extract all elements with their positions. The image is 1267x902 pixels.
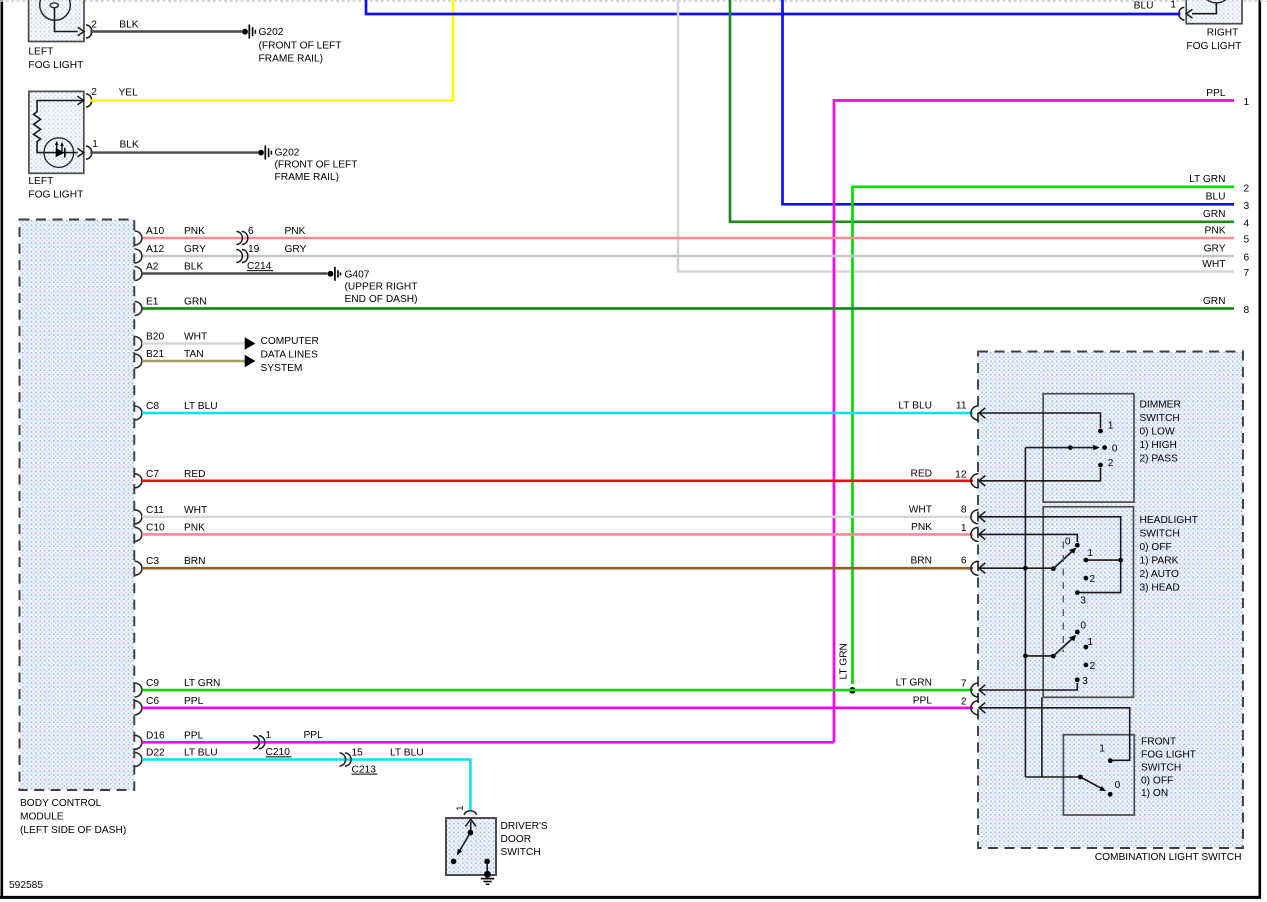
wire WHT: top edge down then right to edge exit 7 (678, 0, 1234, 272)
svg-text:PPL: PPL (184, 696, 204, 707)
svg-text:C8: C8 (146, 401, 159, 412)
svg-text:WHT: WHT (184, 332, 207, 343)
fog switch contact 1 (1108, 758, 1113, 763)
diagonal moving contact with arrowhead (460, 833, 471, 851)
svg-text:COMPUTER: COMPUTER (261, 336, 319, 347)
pin 2 connector L2 (78, 96, 84, 105)
svg-text:FRAME RAIL): FRAME RAIL) (259, 54, 324, 65)
svg-text:GRN: GRN (1203, 209, 1226, 220)
svg-text:PPL: PPL (1206, 88, 1226, 99)
switch pin 12 connector (971, 474, 985, 488)
ground G407 (upper right end of dash) (328, 267, 418, 305)
svg-text:0) OFF: 0) OFF (1140, 542, 1172, 553)
svg-text:MODULE: MODULE (20, 812, 64, 823)
svg-text:LT GRN: LT GRN (1189, 174, 1225, 185)
svg-text:1: 1 (266, 730, 272, 741)
svg-text:COMBINATION LIGHT SWITCH: COMBINATION LIGHT SWITCH (1095, 852, 1242, 863)
svg-text:FOG LIGHT: FOG LIGHT (1141, 750, 1196, 761)
svg-text:(FRONT OF LEFT: (FRONT OF LEFT (275, 160, 358, 171)
svg-text:DRIVER'S: DRIVER'S (501, 821, 548, 832)
svg-text:2: 2 (961, 696, 967, 707)
pin 1 line to headlight contact 0 (979, 534, 1077, 542)
svg-text:SWITCH: SWITCH (1140, 529, 1180, 540)
svg-text:WHT: WHT (909, 504, 932, 515)
svg-text:DOOR: DOOR (501, 834, 532, 845)
svg-text:1: 1 (1244, 97, 1250, 108)
BCM pin C9 connector (135, 683, 142, 697)
svg-text:1) HIGH: 1) HIGH (1140, 440, 1177, 451)
wire BLK L2 pin1 to G202 (90, 151, 258, 153)
wire BLK L1 pin2 to G202 (90, 30, 242, 32)
wire WHT B20 (142, 342, 245, 345)
svg-text:19: 19 (248, 244, 260, 255)
svg-text:PNK: PNK (184, 226, 205, 237)
svg-text:C7: C7 (146, 469, 159, 480)
svg-text:0) OFF: 0) OFF (1141, 776, 1173, 787)
svg-text:0: 0 (1065, 537, 1071, 548)
svg-text:D16: D16 (146, 730, 165, 741)
pin 12 line to dimmer contact 2 (979, 468, 1101, 481)
svg-text:G202: G202 (275, 148, 300, 159)
wire BRN C3 to switch pin 6 (142, 567, 973, 570)
svg-text:2: 2 (91, 87, 97, 98)
pin 7 line to headlight lower contact 3 (979, 683, 1077, 690)
svg-text:1) ON: 1) ON (1141, 788, 1168, 799)
headlight upper contacts (1075, 543, 1080, 548)
headlight lower moving contact arrow (1053, 638, 1072, 656)
svg-text:GRN: GRN (1203, 296, 1226, 307)
ground side contact (484, 859, 490, 865)
svg-text:LT GRN: LT GRN (839, 643, 850, 679)
svg-text:A10: A10 (146, 226, 164, 237)
switch pin 11 connector (971, 406, 985, 420)
svg-text:RIGHT: RIGHT (1207, 28, 1239, 39)
body control module box (20, 220, 135, 837)
emission arrows (56, 143, 58, 150)
svg-text:2: 2 (1090, 661, 1096, 672)
svg-text:SWITCH: SWITCH (1141, 762, 1181, 773)
wire TAN B21 (142, 360, 245, 362)
svg-text:FOG LIGHT: FOG LIGHT (28, 60, 83, 71)
wire PNK A10 row to edge exit 5 (142, 237, 1234, 240)
BCM pin E1 connector (135, 302, 142, 316)
pin 11 line to dimmer contact 1 (979, 413, 1101, 428)
svg-text:1: 1 (454, 806, 465, 811)
svg-text:2: 2 (1244, 183, 1250, 194)
svg-text:B21: B21 (146, 349, 164, 360)
wire GRN: top edge down then right to edge exit 4 (730, 0, 1234, 222)
inline connector C213 pin 15 (LT BLU) (340, 753, 346, 766)
fog switch contact 0 (1108, 792, 1113, 797)
svg-text:A12: A12 (146, 244, 164, 255)
BCM pin A10 connector (135, 231, 142, 245)
svg-text:1: 1 (961, 523, 967, 534)
svg-text:PNK: PNK (911, 522, 932, 533)
svg-text:3) HEAD: 3) HEAD (1140, 583, 1180, 594)
pin 1 connector L2 (74, 152, 78, 154)
svg-text:PNK: PNK (184, 522, 205, 533)
svg-text:TAN: TAN (184, 349, 204, 360)
svg-text:5: 5 (1244, 235, 1250, 246)
switch pin 6 connector (971, 561, 985, 575)
pin 2 line to fog switch contact 1 (979, 708, 1130, 761)
svg-text:(LEFT SIDE OF DASH): (LEFT SIDE OF DASH) (20, 825, 126, 836)
headlight lower pivot from feed (1023, 654, 1028, 659)
svg-text:D22: D22 (146, 748, 165, 759)
BCM pin C11 connector (135, 510, 142, 524)
svg-text:GRY: GRY (285, 244, 307, 255)
BCM pin C8 connector (135, 406, 142, 420)
svg-text:PPL: PPL (304, 730, 324, 741)
svg-text:BRN: BRN (910, 556, 932, 567)
svg-text:SYSTEM: SYSTEM (261, 363, 303, 374)
svg-text:7: 7 (1244, 268, 1250, 279)
svg-text:FRONT: FRONT (1141, 737, 1176, 748)
dimmer common 0 with arrow (1025, 447, 1070, 449)
svg-text:1: 1 (1087, 637, 1093, 648)
pin 8 line to headlight contacts 1 and 3 (979, 517, 1121, 593)
svg-text:7: 7 (961, 679, 967, 690)
svg-text:2) PASS: 2) PASS (1140, 454, 1179, 465)
pin 1 connector R1 (1186, 9, 1192, 18)
svg-text:0: 0 (1115, 780, 1121, 791)
svg-text:1) PARK: 1) PARK (1140, 556, 1179, 567)
svg-text:1: 1 (1108, 420, 1114, 431)
svg-text:HEADLIGHT: HEADLIGHT (1140, 515, 1198, 526)
svg-text:C6: C6 (146, 696, 159, 707)
svg-text:BLK: BLK (184, 262, 203, 273)
svg-text:FRAME RAIL): FRAME RAIL) (275, 172, 340, 183)
svg-text:C10: C10 (146, 522, 165, 533)
svg-text:LT GRN: LT GRN (184, 678, 220, 689)
front fog light switch box (1063, 735, 1134, 815)
svg-text:FOG LIGHT: FOG LIGHT (28, 190, 83, 201)
wire LT GRN C9 to switch pin 7 (142, 689, 973, 692)
right fog light (clipped top right) (1179, 0, 1242, 52)
svg-text:3: 3 (1080, 596, 1086, 607)
wire LT BLU D22 right then down to door switch (142, 760, 470, 811)
driver's door switch (446, 806, 548, 885)
svg-text:BODY CONTROL: BODY CONTROL (20, 798, 102, 809)
dimmer contact 1 (1098, 429, 1103, 434)
left fog light L1 (top, clipped) (28, 0, 138, 71)
BCM pin C7 connector (135, 474, 142, 488)
junction node: LT GRN vertical joins C9 row (849, 687, 856, 694)
fog switch feed line (1025, 776, 1080, 778)
BCM pin D22 connector (135, 753, 142, 767)
bulb R1 (1201, 0, 1232, 3)
svg-text:PNK: PNK (285, 226, 306, 237)
BCM pin C3 connector (135, 561, 142, 575)
svg-text:1: 1 (1170, 0, 1176, 11)
internal wiring + resistor zigzag (34, 101, 84, 153)
svg-text:C11: C11 (146, 505, 164, 516)
dimmer switch box (1043, 394, 1134, 502)
pin 6 feed line to headlight pivot (979, 567, 1053, 569)
svg-text:LEFT: LEFT (28, 176, 53, 187)
svg-text:2) AUTO: 2) AUTO (1140, 569, 1180, 580)
svg-text:PNK: PNK (1205, 225, 1226, 236)
svg-text:2: 2 (1108, 458, 1114, 469)
svg-text:1: 1 (1087, 548, 1093, 559)
svg-text:RED: RED (910, 468, 932, 479)
svg-text:RED: RED (184, 469, 206, 480)
svg-text:LT BLU: LT BLU (184, 748, 218, 759)
wire PNK C10 to switch pin 1 (142, 533, 973, 536)
svg-text:4: 4 (1244, 218, 1250, 229)
wire LT BLU C8 to switch pin 11 (142, 412, 973, 415)
wire WHT C11 to switch pin 8 (142, 516, 973, 519)
headlight upper moving contact arrow (1053, 551, 1072, 569)
svg-text:6: 6 (248, 226, 254, 237)
svg-text:BLK: BLK (119, 20, 138, 31)
svg-text:GRY: GRY (1204, 243, 1226, 254)
arrow to computer data lines (TAN) (245, 355, 256, 368)
headlight lower contacts (1075, 630, 1080, 635)
wire GRN E1 row to edge exit 8 (142, 307, 1234, 310)
svg-text:B20: B20 (146, 332, 164, 343)
wire PPL D16 to vertical riser (142, 741, 834, 744)
svg-text:0: 0 (1112, 443, 1118, 454)
BCM pin B20 connector (135, 337, 142, 351)
wire RED C7 to switch pin 12 (142, 479, 973, 482)
svg-text:G407: G407 (345, 270, 370, 281)
svg-text:LEFT: LEFT (28, 46, 53, 57)
svg-text:GRN: GRN (184, 297, 207, 308)
BCM pin C6 connector (135, 701, 142, 715)
svg-text:6: 6 (1244, 253, 1250, 264)
svg-text:LT BLU: LT BLU (390, 747, 424, 758)
svg-text:(UPPER RIGHT: (UPPER RIGHT (345, 282, 418, 293)
wire BLU 2: top edge down then right to edge exit 3 (783, 0, 1235, 204)
wire PPL C6 to switch pin 2 (142, 706, 973, 709)
BCM pin A12 connector (135, 249, 142, 263)
wire YEL: fog L2 pin2 right then up to top edge (90, 0, 453, 101)
wire BLK A2 to G407 (142, 272, 328, 274)
BCM pin A2 connector (135, 267, 142, 281)
dimmer contact 2 (1098, 463, 1103, 468)
wire BLU: from top edge down, right to right fog light pin 1 (366, 0, 1180, 14)
svg-text:FOG LIGHT: FOG LIGHT (1186, 41, 1241, 52)
switch pin 2 connector (971, 701, 985, 715)
svg-text:LT BLU: LT BLU (898, 401, 932, 412)
svg-text:BLU: BLU (1206, 192, 1226, 203)
switch pin 7 connector (971, 683, 985, 697)
svg-text:WHT: WHT (184, 505, 207, 516)
svg-text:END OF DASH): END OF DASH) (345, 294, 418, 305)
feed vertical (dimmer/headlight/fog common) (1024, 448, 1026, 777)
stray vertical from headlight box to fog feed (1041, 697, 1043, 777)
connector arc top (pin 1) (464, 811, 476, 815)
svg-text:G202: G202 (259, 27, 284, 38)
svg-text:6: 6 (961, 556, 967, 567)
inline connector C214 pin 6 (PNK) (236, 232, 242, 245)
arrow to computer data lines (WHT) (245, 337, 256, 350)
svg-text:DATA LINES: DATA LINES (261, 350, 319, 361)
inline connector C214 pin 19 (GRY) (236, 250, 242, 263)
wire PPL: edge exit 1 left then down to D16 row (834, 101, 1234, 743)
svg-text:15: 15 (352, 747, 364, 758)
svg-text:DIMMER: DIMMER (1140, 400, 1181, 411)
svg-text:C3: C3 (146, 556, 159, 567)
arrow up + stem (470, 822, 472, 833)
bulb L1 (40, 0, 71, 20)
svg-text:YEL: YEL (119, 87, 139, 98)
svg-text:3: 3 (1082, 676, 1088, 687)
wire GRY A12 row to edge exit 6 (142, 255, 1234, 257)
pin 2 connector L1 (78, 27, 84, 36)
svg-text:LT GRN: LT GRN (896, 678, 932, 689)
svg-text:SWITCH: SWITCH (501, 847, 541, 858)
svg-text:BLU: BLU (1134, 0, 1154, 11)
svg-text:SWITCH: SWITCH (1140, 413, 1180, 424)
svg-text:592585: 592585 (9, 880, 43, 891)
BCM pin C10 connector (135, 527, 142, 541)
svg-text:8: 8 (961, 504, 967, 515)
svg-text:BLK: BLK (120, 139, 139, 150)
svg-text:3: 3 (1244, 201, 1250, 212)
wire LT GRN: edge exit 2 left, down to junction with C9 row (853, 187, 1235, 684)
svg-text:2: 2 (1089, 574, 1095, 585)
svg-text:12: 12 (955, 469, 967, 480)
switch pin 1 connector (971, 527, 985, 541)
svg-text:1: 1 (92, 139, 98, 150)
svg-text:BRN: BRN (184, 556, 206, 567)
ground G202 (front of left frame rail) (242, 25, 341, 65)
svg-text:8: 8 (1244, 305, 1250, 316)
ground G202 second (front of left frame rail) (258, 146, 357, 183)
svg-text:A2: A2 (146, 262, 159, 273)
svg-text:PPL: PPL (913, 695, 933, 706)
svg-text:(FRONT OF LEFT: (FRONT OF LEFT (259, 41, 342, 52)
BCM pin D16 connector (135, 735, 142, 749)
svg-text:C9: C9 (146, 678, 159, 689)
linkage dashed line (1062, 542, 1064, 653)
svg-text:LT BLU: LT BLU (184, 401, 218, 412)
fog switch moving contact arrow to 0 (1080, 777, 1102, 789)
headlight switch box (1043, 507, 1133, 698)
BCM pin B21 connector (135, 354, 142, 368)
svg-text:0) LOW: 0) LOW (1140, 427, 1175, 438)
svg-text:GRY: GRY (184, 244, 206, 255)
svg-text:2: 2 (91, 20, 97, 31)
svg-text:WHT: WHT (1202, 259, 1225, 270)
svg-text:1: 1 (1099, 744, 1105, 755)
ground bars (481, 878, 495, 880)
svg-text:PPL: PPL (184, 730, 204, 741)
svg-text:0: 0 (1080, 621, 1086, 632)
LED circle (44, 138, 74, 168)
combination light switch outer box (978, 352, 1243, 849)
svg-text:11: 11 (956, 401, 967, 412)
inline connector C210 pin 1 (PPL) (253, 736, 259, 749)
svg-text:E1: E1 (146, 297, 159, 308)
switch pin 8 connector (971, 510, 985, 524)
left fog light L2 (with LED) (28, 87, 139, 201)
